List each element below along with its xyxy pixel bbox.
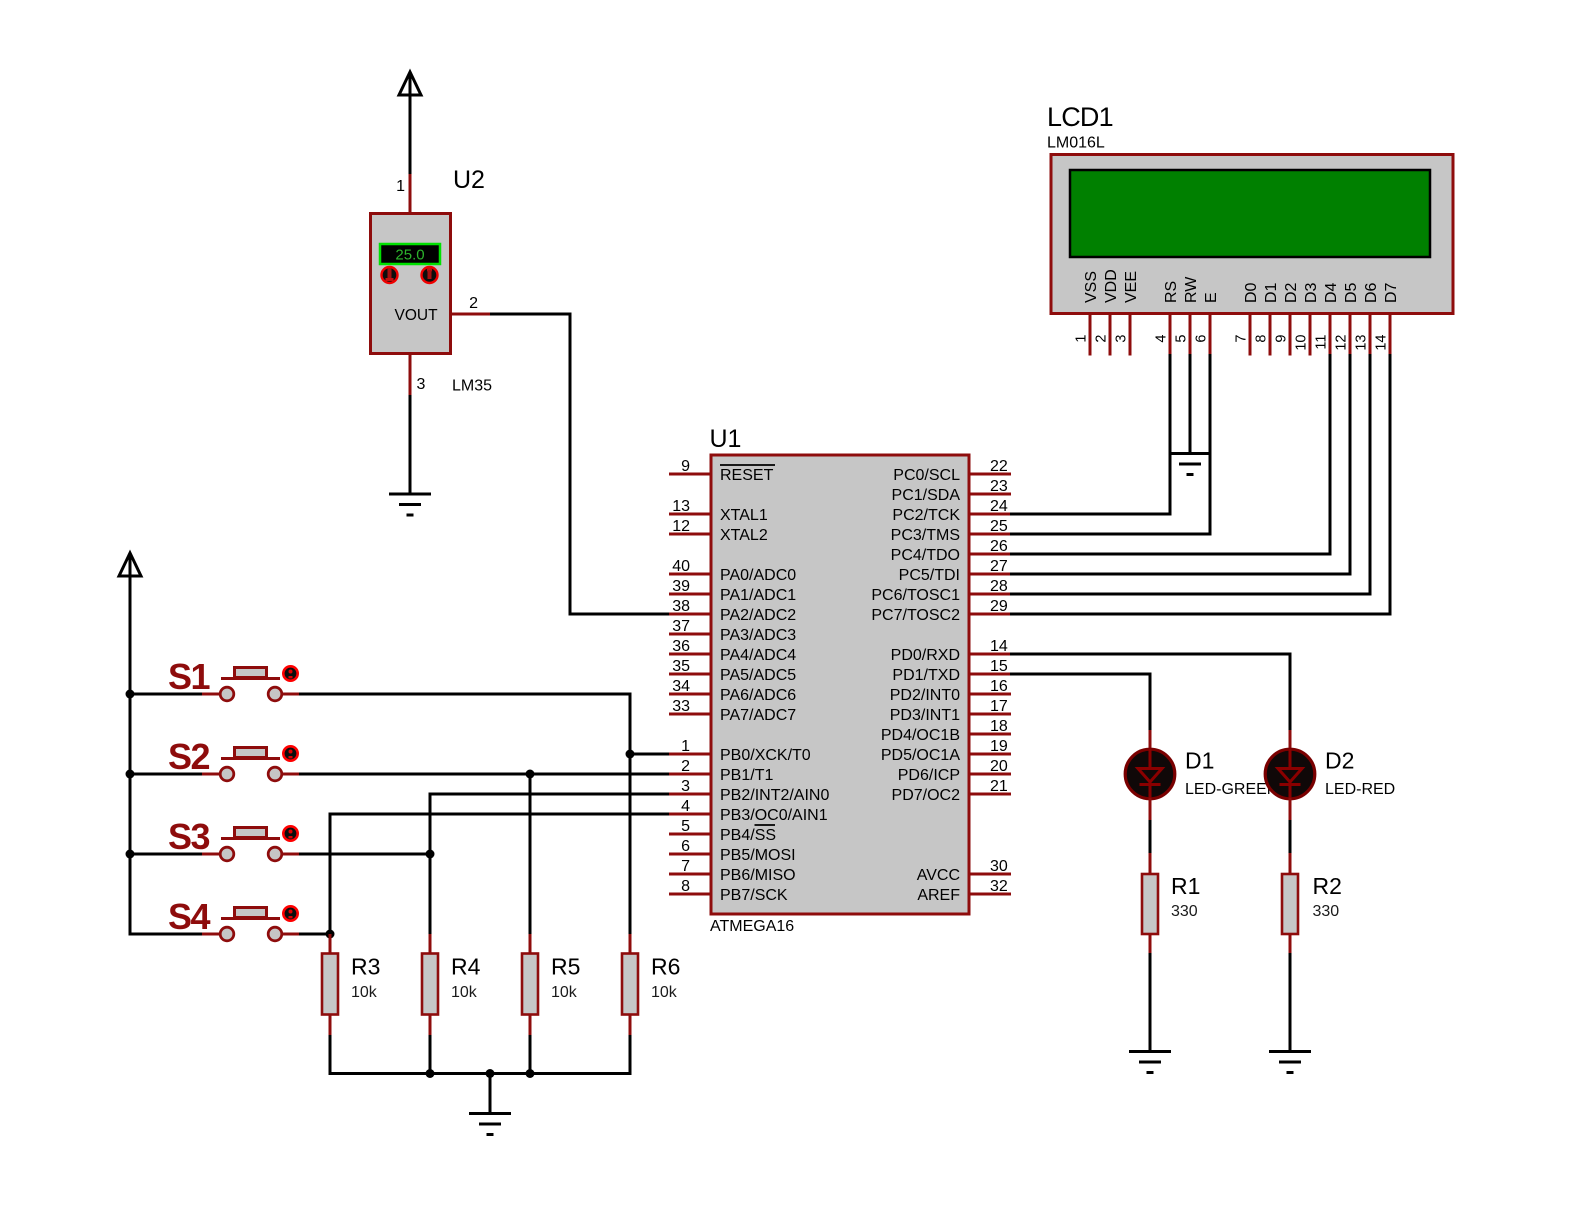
svg-text:25: 25 xyxy=(990,518,1008,535)
button S1 xyxy=(201,666,300,701)
ground (LCD RW) xyxy=(1171,452,1209,455)
wire LCD D7 to U1 PC7 xyxy=(1010,354,1390,614)
svg-text:D1: D1 xyxy=(1185,748,1214,774)
pin 28 stub U1 PC6/TOSC1 xyxy=(969,593,1011,596)
wire R3 to ground bus xyxy=(329,1035,332,1075)
svg-text:35: 35 xyxy=(672,658,690,675)
pin 14 stub LCD1 D7 xyxy=(1389,314,1392,356)
svg-text:PC0/SCL: PC0/SCL xyxy=(893,467,960,484)
wire R2 to ground xyxy=(1289,953,1292,1052)
pin 22 stub U1 PC0/SCL xyxy=(969,473,1011,476)
svg-text:D2: D2 xyxy=(1325,748,1354,774)
wire rail to S3 xyxy=(130,853,202,856)
svg-text:19: 19 xyxy=(990,738,1008,755)
wire D1 to R1 xyxy=(1149,820,1152,855)
svg-text:R2: R2 xyxy=(1313,873,1342,899)
svg-text:34: 34 xyxy=(672,678,690,695)
pin 19 stub U1 PD5/OC1A xyxy=(969,753,1011,756)
resistor R4 pin stubs xyxy=(429,934,432,954)
svg-text:D5: D5 xyxy=(1343,282,1360,303)
resistor R2 pin stubs xyxy=(1289,853,1292,875)
pin 35 stub U1 PA5/ADC5 xyxy=(669,673,711,676)
svg-text:33: 33 xyxy=(672,698,690,715)
led D1 anode stub xyxy=(1149,730,1152,749)
svg-text:8: 8 xyxy=(681,878,690,895)
pin 2 stub U1 PB1/T1 xyxy=(669,773,711,776)
svg-text:RW: RW xyxy=(1183,276,1200,303)
button S2 xyxy=(201,746,300,781)
svg-text:PD4/OC1B: PD4/OC1B xyxy=(881,727,960,744)
wire junction to PB0 pin xyxy=(630,753,672,756)
svg-text:30: 30 xyxy=(990,858,1008,875)
svg-text:7: 7 xyxy=(681,858,690,875)
svg-text:R4: R4 xyxy=(451,954,481,980)
svg-text:LM016L: LM016L xyxy=(1047,135,1105,152)
pin 36 stub U1 PA4/ADC4 xyxy=(669,653,711,656)
wire R6 to ground bus xyxy=(629,1035,632,1075)
led D2 xyxy=(1265,749,1315,799)
wire LCD D6 to U1 PC6 xyxy=(1010,354,1370,594)
pin 3 stub LCD1 VEE xyxy=(1129,314,1132,356)
svg-text:37: 37 xyxy=(672,618,690,635)
svg-text:PD0/RXD: PD0/RXD xyxy=(891,647,960,664)
wire S3 to junction xyxy=(299,853,430,856)
svg-text:PC3/TMS: PC3/TMS xyxy=(891,527,960,544)
svg-text:13: 13 xyxy=(672,498,690,515)
svg-text:4: 4 xyxy=(681,798,690,815)
svg-text:24: 24 xyxy=(990,498,1008,515)
svg-text:D2: D2 xyxy=(1283,282,1300,303)
pin 12 stub LCD1 D5 xyxy=(1349,314,1352,356)
resistor R1 pin stubs xyxy=(1149,853,1152,875)
wire pin1 stub U2 xyxy=(409,174,412,213)
svg-text:1: 1 xyxy=(396,178,405,195)
svg-text:U2: U2 xyxy=(453,166,485,194)
svg-text:LED-GREEN: LED-GREEN xyxy=(1185,781,1278,798)
svg-text:RS: RS xyxy=(1163,281,1180,303)
wire rail to S4 xyxy=(130,933,202,936)
svg-text:15: 15 xyxy=(990,658,1008,675)
wire LCD D5 to U1 PC5 xyxy=(1010,354,1350,574)
svg-text:S3: S3 xyxy=(168,816,210,857)
pin 5 stub LCD1 RW xyxy=(1189,314,1192,356)
pin 9 stub LCD1 D2 xyxy=(1289,314,1292,356)
svg-text:VOUT: VOUT xyxy=(395,307,439,324)
pin 11 stub LCD1 D4 xyxy=(1329,314,1332,356)
svg-text:6: 6 xyxy=(1194,335,1210,343)
svg-text:25.0: 25.0 xyxy=(395,247,424,264)
pin 24 stub U1 PC2/TCK xyxy=(969,513,1011,516)
resistor R4 xyxy=(422,954,438,1015)
sensor U2 body LM35 xyxy=(371,214,451,354)
led D1 cathode stub xyxy=(1149,798,1152,822)
pin 25 stub U1 PC3/TMS xyxy=(969,533,1011,536)
svg-text:12: 12 xyxy=(1334,335,1350,351)
power symbol VCC (LM35 pin 1) xyxy=(409,72,412,176)
svg-text:RESET: RESET xyxy=(720,467,774,484)
pin 38 stub U1 PA2/ADC2 xyxy=(669,613,711,616)
wire bus to ground xyxy=(489,1074,492,1115)
wire U1 to D2 xyxy=(1010,654,1290,732)
svg-text:D6: D6 xyxy=(1363,282,1380,303)
svg-text:3: 3 xyxy=(1114,335,1130,343)
ground (D1) xyxy=(1129,1050,1171,1053)
wire U1 to D1 xyxy=(1010,674,1150,732)
wire U2 VOUT to U1 PA2 xyxy=(490,314,672,614)
pin 39 stub U1 PA1/ADC1 xyxy=(669,593,711,596)
junction dot S3/R4/PB2 xyxy=(426,850,435,859)
svg-text:PB6/MISO: PB6/MISO xyxy=(720,867,796,884)
svg-text:26: 26 xyxy=(990,538,1008,555)
pin 23 stub U1 PC1/SDA xyxy=(969,493,1011,496)
pin 32 stub U1 AREF xyxy=(969,893,1011,896)
svg-text:R5: R5 xyxy=(551,954,580,980)
pin 18 stub U1 PD4/OC1B xyxy=(969,733,1011,736)
svg-text:10k: 10k xyxy=(351,984,378,1001)
svg-text:18: 18 xyxy=(990,718,1008,735)
pin 10 stub LCD1 D3 xyxy=(1309,314,1312,356)
wire U2 pin3 to ground xyxy=(409,395,412,494)
pin 16 stub U1 PD2/INT0 xyxy=(969,693,1011,696)
pin 6 stub LCD1 E xyxy=(1209,314,1212,356)
svg-text:330: 330 xyxy=(1171,903,1198,920)
svg-text:PA4/ADC4: PA4/ADC4 xyxy=(720,647,796,664)
svg-text:10k: 10k xyxy=(551,984,578,1001)
svg-text:PA6/ADC6: PA6/ADC6 xyxy=(720,687,796,704)
junction dot S2/R5 xyxy=(526,770,535,779)
pin 4 stub LCD1 RS xyxy=(1169,314,1172,356)
svg-text:PD1/TXD: PD1/TXD xyxy=(892,667,960,684)
junction dot rail-S2 xyxy=(126,770,135,779)
svg-text:29: 29 xyxy=(990,598,1008,615)
wire R5 riser xyxy=(529,774,532,935)
ground bus wire xyxy=(330,1072,630,1075)
pin 30 stub U1 AVCC xyxy=(969,873,1011,876)
svg-text:32: 32 xyxy=(990,878,1008,895)
svg-text:10k: 10k xyxy=(651,984,678,1001)
svg-text:21: 21 xyxy=(990,778,1008,795)
svg-text:PD6/ICP: PD6/ICP xyxy=(898,767,960,784)
svg-text:ATMEGA16: ATMEGA16 xyxy=(710,918,794,935)
svg-text:5: 5 xyxy=(1174,335,1190,343)
svg-text:14: 14 xyxy=(990,638,1008,655)
svg-text:R6: R6 xyxy=(651,954,680,980)
ground (button resistors) xyxy=(469,1112,511,1115)
svg-text:LED-RED: LED-RED xyxy=(1325,781,1395,798)
svg-text:PB0/XCK/T0: PB0/XCK/T0 xyxy=(720,747,811,764)
lcd LCD1 screen xyxy=(1070,170,1430,257)
resistor R3 pin stubs xyxy=(329,934,332,954)
svg-text:PA2/ADC2: PA2/ADC2 xyxy=(720,607,796,624)
pin 8 stub LCD1 D1 xyxy=(1269,314,1272,356)
wire junction to PB3 pin xyxy=(330,814,672,934)
svg-text:PB4/SS: PB4/SS xyxy=(720,827,776,844)
pin 13 stub U1 XTAL1 xyxy=(669,513,711,516)
svg-text:E: E xyxy=(1203,292,1220,303)
pin 2 stub LCD1 VDD xyxy=(1109,314,1112,356)
svg-text:PC7/TOSC2: PC7/TOSC2 xyxy=(871,607,960,624)
pin 37 stub U1 PA3/ADC3 xyxy=(669,633,711,636)
pin 27 stub U1 PC5/TDI xyxy=(969,573,1011,576)
U2 knob left xyxy=(382,267,398,283)
junction dot S1/R6/PB0 xyxy=(626,750,635,759)
pin 1 stub LCD1 VSS xyxy=(1089,314,1092,356)
pin 7 stub LCD1 D0 xyxy=(1249,314,1252,356)
svg-text:10: 10 xyxy=(1294,335,1310,351)
wire LCD RS to U1 PC2 xyxy=(1010,354,1170,514)
pin 6 stub U1 PB5/MOSI xyxy=(669,853,711,856)
wire LCD RW to ground xyxy=(1189,354,1192,454)
svg-text:VDD: VDD xyxy=(1103,269,1120,303)
svg-text:6: 6 xyxy=(681,838,690,855)
resistor R2 xyxy=(1282,874,1298,934)
ic U1 body ATMEGA16 xyxy=(711,455,969,914)
wire R5 to ground bus xyxy=(529,1035,532,1075)
wire S4 to junction xyxy=(299,933,330,936)
overline SS (PB4) xyxy=(755,824,776,826)
resistor R6 pin stubs xyxy=(629,934,632,954)
svg-text:PD5/OC1A: PD5/OC1A xyxy=(881,747,960,764)
svg-text:PC1/SDA: PC1/SDA xyxy=(892,487,961,504)
svg-text:28: 28 xyxy=(990,578,1008,595)
U2 knob right xyxy=(422,267,438,283)
overline RESET xyxy=(720,464,775,466)
pin 26 stub U1 PC4/TDO xyxy=(969,553,1011,556)
svg-text:PC2/TCK: PC2/TCK xyxy=(892,507,960,524)
svg-text:13: 13 xyxy=(1354,335,1370,351)
wire junction to PB2 pin xyxy=(430,794,672,935)
pin 40 stub U1 PA0/ADC0 xyxy=(669,573,711,576)
svg-text:11: 11 xyxy=(1314,335,1330,350)
svg-text:1: 1 xyxy=(681,738,690,755)
svg-text:8: 8 xyxy=(1254,335,1270,343)
svg-text:PA3/ADC3: PA3/ADC3 xyxy=(720,627,796,644)
svg-text:LM35: LM35 xyxy=(452,378,492,395)
junction dot rail-S3 xyxy=(126,850,135,859)
svg-text:AREF: AREF xyxy=(917,887,960,904)
svg-text:3: 3 xyxy=(417,376,426,393)
svg-text:10k: 10k xyxy=(451,984,478,1001)
junction dot bus-R4 xyxy=(426,1069,435,1078)
svg-text:S1: S1 xyxy=(168,656,211,697)
svg-text:PA7/ADC7: PA7/ADC7 xyxy=(720,707,796,724)
svg-text:PB1/T1: PB1/T1 xyxy=(720,767,773,784)
svg-text:PC4/TDO: PC4/TDO xyxy=(891,547,960,564)
wire LCD D4 to U1 PC4 xyxy=(1010,354,1330,554)
svg-text:38: 38 xyxy=(672,598,690,615)
pin 20 stub U1 PD6/ICP xyxy=(969,773,1011,776)
svg-text:40: 40 xyxy=(672,558,690,575)
svg-text:VEE: VEE xyxy=(1123,271,1140,303)
svg-text:20: 20 xyxy=(990,758,1008,775)
svg-text:22: 22 xyxy=(990,458,1008,475)
svg-text:1: 1 xyxy=(1074,335,1090,343)
svg-text:23: 23 xyxy=(990,478,1008,495)
pin 12 stub U1 XTAL2 xyxy=(669,533,711,536)
ground (D2) xyxy=(1269,1050,1311,1053)
button S3 xyxy=(201,826,300,861)
svg-text:2: 2 xyxy=(469,295,478,312)
svg-text:3: 3 xyxy=(681,778,690,795)
junction dot rail-S1 xyxy=(126,690,135,699)
svg-text:PA1/ADC1: PA1/ADC1 xyxy=(720,587,796,604)
resistor R5 pin stubs xyxy=(529,934,532,954)
svg-text:14: 14 xyxy=(1374,335,1390,351)
ground (LM35) xyxy=(389,493,431,496)
resistor R5 xyxy=(522,954,538,1015)
svg-text:D4: D4 xyxy=(1323,282,1340,303)
wire D2 to R2 xyxy=(1289,820,1292,855)
pin 29 stub U1 PC7/TOSC2 xyxy=(969,613,1011,616)
svg-text:2: 2 xyxy=(1094,335,1110,343)
button S4 xyxy=(201,906,300,941)
pin 33 stub U1 PA7/ADC7 xyxy=(669,713,711,716)
wire R4 to ground bus xyxy=(429,1035,432,1075)
pin 5 stub U1 PB4/SS xyxy=(669,833,711,836)
svg-text:PB5/MOSI: PB5/MOSI xyxy=(720,847,796,864)
svg-text:R3: R3 xyxy=(351,954,380,980)
pin 1 stub U1 PB0/XCK/T0 xyxy=(669,753,711,756)
svg-text:D1: D1 xyxy=(1263,282,1280,303)
pin 14 stub U1 PD0/RXD xyxy=(969,653,1011,656)
svg-text:330: 330 xyxy=(1313,903,1340,920)
svg-text:D0: D0 xyxy=(1243,282,1260,303)
led D2 anode stub xyxy=(1289,730,1292,749)
led D2 cathode stub xyxy=(1289,798,1292,822)
svg-text:PC5/TDI: PC5/TDI xyxy=(899,567,960,584)
U2 display window 25.0 xyxy=(380,244,440,264)
svg-text:27: 27 xyxy=(990,558,1008,575)
wire R1 to ground xyxy=(1149,953,1152,1052)
svg-text:PB3/OC0/AIN1: PB3/OC0/AIN1 xyxy=(720,807,828,824)
svg-text:LCD1: LCD1 xyxy=(1047,102,1113,132)
resistor R1 xyxy=(1142,874,1158,934)
svg-text:VSS: VSS xyxy=(1083,271,1100,303)
led D1 xyxy=(1125,749,1175,799)
svg-text:S2: S2 xyxy=(168,736,210,777)
svg-text:XTAL2: XTAL2 xyxy=(720,527,768,544)
svg-text:17: 17 xyxy=(990,698,1008,715)
resistor R3 xyxy=(322,954,338,1015)
resistor R6 xyxy=(622,954,638,1015)
pin 3 stub U1 PB2/INT2/AIN0 xyxy=(669,793,711,796)
svg-text:PB7/SCK: PB7/SCK xyxy=(720,887,788,904)
junction dot S4/R3/PB3 xyxy=(326,930,335,939)
pin 17 stub U1 PD3/INT1 xyxy=(969,713,1011,716)
svg-text:9: 9 xyxy=(1274,335,1290,343)
svg-text:16: 16 xyxy=(990,678,1008,695)
svg-text:4: 4 xyxy=(1154,335,1170,343)
svg-text:D3: D3 xyxy=(1303,282,1320,303)
svg-text:AVCC: AVCC xyxy=(917,867,960,884)
power symbol VCC (buttons rail) xyxy=(129,553,132,936)
pin 15 stub U1 PD1/TXD xyxy=(969,673,1011,676)
lcd LCD1 body xyxy=(1051,155,1453,314)
svg-text:PA5/ADC5: PA5/ADC5 xyxy=(720,667,796,684)
svg-text:PC6/TOSC1: PC6/TOSC1 xyxy=(871,587,960,604)
svg-text:36: 36 xyxy=(672,638,690,655)
pin 9 stub U1 RESET xyxy=(669,473,711,476)
wire S1 to PB0 net xyxy=(299,694,630,935)
svg-text:PA0/ADC0: PA0/ADC0 xyxy=(720,567,796,584)
svg-text:PD3/INT1: PD3/INT1 xyxy=(890,707,960,724)
svg-text:R1: R1 xyxy=(1171,873,1200,899)
svg-text:5: 5 xyxy=(681,818,690,835)
pin 34 stub U1 PA6/ADC6 xyxy=(669,693,711,696)
wire S2 to PB1 pin xyxy=(299,773,672,776)
svg-text:PD2/INT0: PD2/INT0 xyxy=(890,687,960,704)
wire rail to S1 xyxy=(130,693,202,696)
svg-text:7: 7 xyxy=(1234,335,1250,343)
pin 2 stub U2 VOUT xyxy=(451,313,492,316)
svg-text:PB2/INT2/AIN0: PB2/INT2/AIN0 xyxy=(720,787,829,804)
junction dot bus-R5 xyxy=(526,1069,535,1078)
svg-text:S4: S4 xyxy=(168,896,211,937)
svg-text:2: 2 xyxy=(681,758,690,775)
pin 3 stub U2 GND xyxy=(409,354,412,397)
pin 13 stub LCD1 D6 xyxy=(1369,314,1372,356)
svg-text:39: 39 xyxy=(672,578,690,595)
pin 4 stub U1 PB3/OC0/AIN1 xyxy=(669,813,711,816)
svg-text:9: 9 xyxy=(681,458,690,475)
wire LCD E to U1 PC3 xyxy=(1010,354,1210,534)
pin 21 stub U1 PD7/OC2 xyxy=(969,793,1011,796)
svg-text:PD7/OC2: PD7/OC2 xyxy=(892,787,961,804)
pin 8 stub U1 PB7/SCK xyxy=(669,893,711,896)
wire rail to S2 xyxy=(130,773,202,776)
pin 7 stub U1 PB6/MISO xyxy=(669,873,711,876)
svg-text:U1: U1 xyxy=(710,425,742,453)
svg-text:D7: D7 xyxy=(1383,282,1400,303)
svg-text:12: 12 xyxy=(672,518,690,535)
junction dot bus-gnd xyxy=(486,1069,495,1078)
svg-text:XTAL1: XTAL1 xyxy=(720,507,768,524)
